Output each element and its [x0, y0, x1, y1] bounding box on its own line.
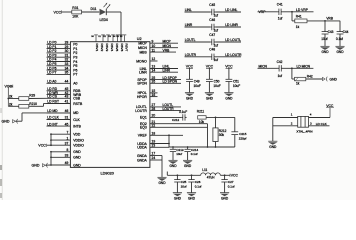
svg-text:GND: GND	[225, 96, 233, 100]
svg-text:C45: C45	[209, 3, 215, 7]
svg-text:7: 7	[66, 130, 68, 134]
svg-text:220pf: 220pf	[239, 136, 247, 140]
svg-text:16: 16	[152, 93, 156, 97]
svg-text:GND: GND	[158, 181, 166, 185]
svg-text:RSTB: RSTB	[73, 102, 83, 106]
svg-text:GND: GND	[321, 50, 329, 54]
svg-text:LD CLK: LD CLK	[316, 122, 328, 126]
svg-text:0.1uf: 0.1uf	[228, 185, 235, 189]
svg-text:C46: C46	[209, 18, 215, 22]
svg-text:10uf: 10uf	[181, 185, 187, 189]
svg-text:LED0: LED0	[100, 18, 109, 22]
svg-text:GND: GND	[330, 77, 338, 81]
svg-text:GND: GND	[188, 196, 196, 200]
svg-text:LD RST: LD RST	[47, 100, 59, 104]
svg-text:C50: C50	[214, 79, 220, 83]
svg-text:GND: GND	[186, 96, 194, 100]
svg-text:EQ1: EQ1	[140, 116, 147, 120]
svg-text:1k: 1k	[296, 82, 300, 86]
svg-text:R29: R29	[29, 93, 35, 97]
svg-text:12: 12	[152, 57, 156, 61]
svg-text:0.1uf: 0.1uf	[195, 185, 202, 189]
svg-text:MBS: MBS	[139, 50, 147, 54]
svg-text:LINR: LINR	[163, 68, 171, 72]
svg-text:VDD: VDD	[73, 133, 81, 137]
svg-text:1uf: 1uf	[278, 17, 283, 21]
svg-text:10uf: 10uf	[176, 152, 182, 156]
svg-text:0.1uf: 0.1uf	[191, 152, 198, 156]
svg-text:CSB: CSB	[73, 97, 81, 101]
svg-text:33: 33	[65, 154, 69, 158]
svg-text:R211: R211	[197, 109, 205, 113]
svg-text:VCC: VCC	[326, 104, 334, 108]
svg-text:A0: A0	[73, 82, 77, 86]
svg-text:MICP: MICP	[163, 39, 172, 43]
svg-text:D11: D11	[91, 7, 97, 11]
svg-text:2k: 2k	[9, 95, 13, 99]
svg-text:RSV7: RSV7	[125, 44, 129, 52]
svg-text:0.1uf: 0.1uf	[336, 37, 343, 41]
svg-text:LD LOUTR: LD LOUTR	[225, 53, 242, 57]
svg-text:37: 37	[65, 141, 69, 145]
svg-text:LD LINL: LD LINL	[225, 8, 237, 12]
svg-text:LD A0: LD A0	[47, 80, 56, 84]
svg-text:10uF: 10uF	[194, 84, 201, 88]
svg-text:RSV2: RSV2	[100, 44, 104, 52]
svg-text:GND: GND	[73, 150, 81, 154]
svg-text:R42: R42	[307, 74, 313, 78]
svg-text:MICN: MICN	[259, 64, 268, 68]
svg-text:8: 8	[66, 148, 68, 152]
svg-text:GND: GND	[269, 145, 277, 149]
svg-text:MD: MD	[73, 111, 79, 115]
svg-text:CLK: CLK	[73, 118, 80, 122]
svg-text:VRB: VRB	[163, 48, 171, 52]
svg-text:GND: GND	[174, 196, 182, 200]
svg-text:VCC: VCC	[231, 174, 239, 178]
svg-text:10K: 10K	[72, 15, 79, 19]
svg-text:C26: C26	[195, 180, 201, 184]
svg-text:XTAL_4PIN: XTAL_4PIN	[296, 129, 312, 133]
svg-text:43: 43	[65, 95, 69, 99]
svg-text:10uF: 10uF	[233, 84, 240, 88]
svg-text:P7: P7	[73, 73, 77, 77]
svg-text:MICN: MICN	[138, 46, 147, 50]
svg-text:C27: C27	[228, 180, 234, 184]
svg-text:C212: C212	[172, 118, 180, 122]
svg-text:C25: C25	[181, 180, 187, 184]
svg-text:GND: GND	[2, 120, 10, 124]
svg-text:30k: 30k	[219, 133, 225, 137]
svg-text:GND: GND	[169, 164, 177, 168]
svg-text:VCC: VCC	[54, 10, 62, 14]
svg-text:1uf: 1uf	[214, 28, 219, 32]
svg-text:MONO: MONO	[136, 59, 147, 63]
svg-text:1uf: 1uf	[214, 13, 219, 17]
svg-text:45: 45	[65, 122, 69, 126]
svg-text:GNDA: GNDA	[137, 158, 148, 162]
svg-text:LD VRP: LD VRP	[296, 8, 309, 12]
svg-text:10uf: 10uf	[321, 37, 327, 41]
svg-text:VDDIO: VDDIO	[73, 138, 84, 142]
svg-text:C47: C47	[209, 33, 215, 37]
svg-text:LD SPON: LD SPON	[163, 80, 178, 84]
svg-text:C48: C48	[209, 48, 215, 52]
svg-text:LD INT: LD INT	[47, 122, 57, 126]
svg-text:C43: C43	[328, 30, 334, 34]
svg-text:VCC: VCC	[38, 143, 46, 147]
svg-text:R41: R41	[296, 15, 302, 19]
svg-text:14: 14	[152, 68, 156, 72]
svg-text:LOUTR: LOUTR	[135, 109, 147, 113]
svg-text:1k: 1k	[296, 25, 300, 29]
svg-text:R210: R210	[29, 102, 37, 106]
svg-text:LD9020: LD9020	[101, 172, 114, 176]
svg-text:RSV4: RSV4	[110, 44, 114, 52]
svg-text:LD CLK: LD CLK	[47, 116, 59, 120]
svg-text:VDDIO: VDDIO	[73, 144, 84, 148]
svg-text:C51: C51	[233, 79, 239, 83]
svg-text:35: 35	[65, 71, 69, 75]
svg-text:MICP: MICP	[138, 42, 147, 46]
svg-text:SPON: SPON	[137, 82, 147, 86]
svg-text:47uH: 47uH	[207, 176, 215, 180]
svg-text:10: 10	[152, 44, 156, 48]
svg-text:EQ3: EQ3	[140, 126, 147, 130]
svg-text:LINR: LINR	[139, 71, 147, 75]
svg-text:MICN: MICN	[163, 44, 172, 48]
svg-text:1uf: 1uf	[278, 74, 283, 78]
svg-text:LD LINR: LD LINR	[225, 23, 238, 27]
svg-text:31: 31	[65, 116, 69, 120]
svg-text:GND: GND	[184, 164, 192, 168]
svg-text:1: 1	[66, 136, 68, 140]
svg-text:GND: GND	[73, 163, 81, 167]
svg-text:2k: 2k	[9, 103, 13, 107]
svg-text:1uf: 1uf	[214, 58, 219, 62]
svg-text:VRB: VRB	[326, 17, 333, 21]
svg-text:C49: C49	[194, 79, 200, 83]
svg-text:R31: R31	[72, 6, 78, 10]
svg-text:UDDA: UDDA	[137, 146, 147, 150]
svg-text:U2: U2	[137, 37, 142, 41]
svg-text:LD P7: LD P7	[47, 71, 56, 75]
svg-text:LD CS: LD CS	[47, 95, 58, 99]
svg-text:C44: C44	[343, 30, 349, 34]
svg-text:26: 26	[152, 80, 156, 84]
svg-text:0.1uF: 0.1uF	[179, 110, 187, 114]
svg-text:RSV6: RSV6	[120, 44, 124, 52]
svg-text:VREF: VREF	[138, 134, 147, 138]
svg-text:GNDA: GNDA	[137, 154, 148, 158]
svg-text:LOUTR: LOUTR	[163, 107, 175, 111]
svg-text:10uF: 10uF	[213, 84, 220, 88]
svg-text:C41: C41	[277, 3, 283, 7]
svg-text:HPOR: HPOR	[137, 95, 147, 99]
svg-text:28: 28	[152, 107, 156, 111]
svg-text:49: 49	[65, 161, 69, 165]
svg-text:GND: GND	[73, 156, 81, 160]
svg-text:RSV1: RSV1	[95, 44, 99, 52]
svg-text:LD LOUTL: LD LOUTL	[225, 38, 241, 42]
svg-text:RSV3: RSV3	[105, 44, 109, 52]
svg-text:RSV5: RSV5	[115, 44, 119, 52]
svg-text:44: 44	[65, 80, 69, 84]
svg-text:GND: GND	[221, 196, 229, 200]
svg-text:GND: GND	[336, 50, 344, 54]
svg-text:GND: GND	[32, 164, 40, 168]
svg-text:11: 11	[152, 48, 156, 52]
svg-text:LD MICN: LD MICN	[297, 64, 311, 68]
svg-text:9: 9	[152, 39, 154, 43]
svg-text:L11: L11	[202, 168, 207, 172]
svg-text:INTB: INTB	[73, 124, 81, 128]
svg-text:C42: C42	[277, 60, 283, 64]
svg-text:41: 41	[65, 100, 69, 104]
svg-text:GND: GND	[206, 96, 214, 100]
